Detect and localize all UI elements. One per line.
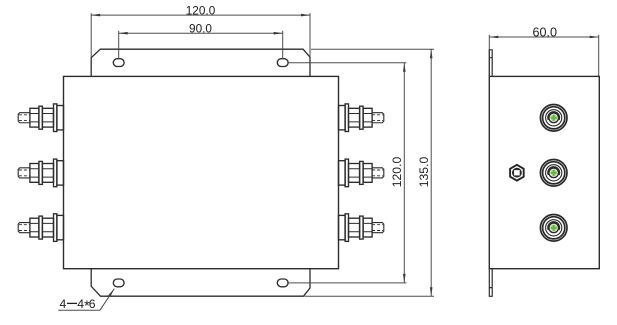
svg-text:6: 6	[89, 297, 96, 311]
svg-text:60.0: 60.0	[532, 26, 557, 40]
svg-text:90.0: 90.0	[189, 21, 212, 35]
svg-text:120.0: 120.0	[390, 157, 404, 188]
svg-text:120.0: 120.0	[186, 4, 216, 18]
svg-text:135.0: 135.0	[417, 157, 431, 188]
svg-text:4: 4	[60, 297, 67, 311]
